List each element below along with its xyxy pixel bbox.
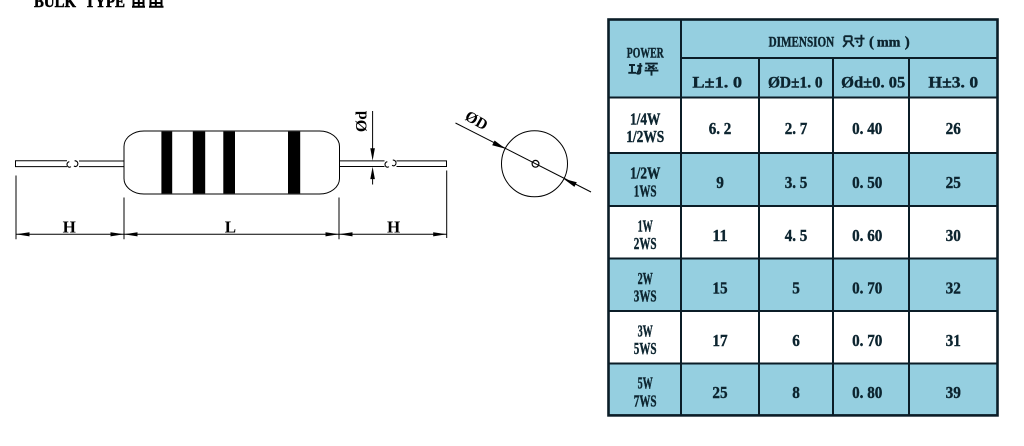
arrow far left — [16, 232, 30, 236]
diameter arrow lower-right — [564, 179, 577, 187]
svg-text:mm: mm — [877, 34, 901, 49]
svg-text:0. 80: 0. 80 — [852, 383, 882, 402]
svg-text:ØD: ØD — [462, 108, 491, 134]
header CJK chi-cun (dimension) — [843, 35, 865, 47]
clipped CJK san zhuang — [132, 0, 164, 7]
header CJK gong-lv (power) — [628, 63, 658, 76]
band 2 — [193, 132, 205, 194]
end view circle — [502, 131, 568, 197]
svg-text:3. 5: 3. 5 — [785, 173, 808, 192]
svg-text:30: 30 — [946, 226, 961, 245]
svg-text:8: 8 — [792, 383, 800, 402]
svg-text:Ød±0. 05: Ød±0. 05 — [841, 75, 905, 92]
svg-text:0. 50: 0. 50 — [852, 173, 882, 192]
Od arrow up — [370, 167, 375, 179]
svg-text:7WS: 7WS — [634, 391, 657, 410]
svg-text:L±1. 0: L±1. 0 — [692, 75, 742, 92]
svg-text:32: 32 — [946, 278, 961, 297]
svg-text:9: 9 — [716, 173, 724, 192]
svg-text:25: 25 — [712, 383, 727, 402]
table blue data row — [609, 364, 998, 416]
resistor body — [124, 131, 340, 194]
svg-text:2W: 2W — [638, 269, 653, 288]
left lead segment 2 — [79, 161, 125, 167]
Od leader line bottom — [372, 178, 374, 185]
svg-text:25: 25 — [946, 173, 961, 192]
svg-text:1/4W: 1/4W — [630, 109, 660, 128]
left lead break hook b — [74, 161, 78, 167]
svg-text:5W: 5W — [638, 374, 653, 393]
svg-text:(: ( — [869, 34, 874, 50]
svg-text:1WS: 1WS — [634, 181, 657, 200]
svg-text:3W: 3W — [638, 321, 653, 340]
diameter line — [456, 123, 592, 192]
svg-text:5WS: 5WS — [634, 339, 657, 358]
table blue data row — [609, 153, 998, 206]
svg-text:11: 11 — [712, 226, 727, 245]
right lead segment 2 — [397, 161, 447, 167]
H-L-H dimension line — [16, 233, 447, 235]
svg-text:H: H — [63, 218, 76, 237]
svg-text:L: L — [225, 218, 236, 237]
svg-text:ØD±1. 0: ØD±1. 0 — [768, 75, 823, 92]
svg-text:1/2WS: 1/2WS — [626, 127, 664, 146]
svg-text:39: 39 — [946, 383, 961, 402]
extension line far left — [15, 176, 17, 240]
extension line body right — [338, 198, 340, 240]
svg-text:4. 5: 4. 5 — [785, 226, 808, 245]
svg-text:H: H — [387, 218, 400, 237]
table blue data row — [609, 259, 998, 312]
band 4 — [288, 132, 300, 194]
svg-text:BULK: BULK — [34, 0, 77, 11]
Od leader line top — [372, 111, 374, 150]
svg-text:2WS: 2WS — [634, 234, 657, 253]
left lead segment 1 — [16, 161, 68, 167]
table blue header band — [609, 20, 998, 98]
svg-text:6. 2: 6. 2 — [709, 119, 732, 138]
svg-text:H±3. 0: H±3. 0 — [928, 75, 978, 92]
right lead break hook a — [385, 162, 389, 168]
svg-text:17: 17 — [712, 331, 728, 350]
svg-text:1W: 1W — [638, 216, 653, 235]
svg-text:0. 60: 0. 60 — [852, 226, 882, 245]
extension line body left — [123, 198, 125, 240]
svg-text:POWER: POWER — [627, 46, 664, 62]
svg-text:31: 31 — [946, 331, 961, 350]
Od arrow down — [370, 148, 375, 160]
left lead break hook a — [67, 162, 71, 168]
extension line far right — [446, 171, 448, 239]
svg-text:15: 15 — [712, 278, 727, 297]
diameter arrow upper-left — [492, 141, 505, 149]
arrow far right — [433, 232, 447, 236]
svg-text:TYPE: TYPE — [85, 0, 125, 11]
svg-text:0. 40: 0. 40 — [852, 119, 882, 138]
band 3 — [223, 132, 235, 194]
svg-text:5: 5 — [792, 278, 800, 297]
arrow pair body right — [326, 232, 340, 236]
svg-text:): ) — [905, 34, 910, 50]
end view center hole — [532, 160, 539, 167]
right lead segment 1 — [340, 161, 385, 167]
table outer border — [609, 20, 998, 416]
right lead break hook b — [392, 160, 396, 166]
svg-text:1/2W: 1/2W — [630, 164, 660, 183]
svg-text:26: 26 — [946, 119, 961, 138]
arrow pair body left — [111, 232, 125, 236]
table horizontal rules — [609, 58, 998, 364]
svg-text:0. 70: 0. 70 — [852, 278, 882, 297]
svg-text:0. 70: 0. 70 — [852, 331, 882, 350]
table vertical rules — [681, 20, 909, 416]
svg-text:Ød: Ød — [354, 111, 371, 132]
svg-text:DIMENSION: DIMENSION — [769, 34, 835, 50]
band 1 — [161, 132, 172, 194]
svg-text:6: 6 — [792, 331, 800, 350]
svg-text:3WS: 3WS — [634, 287, 657, 306]
svg-text:2. 7: 2. 7 — [785, 119, 808, 138]
